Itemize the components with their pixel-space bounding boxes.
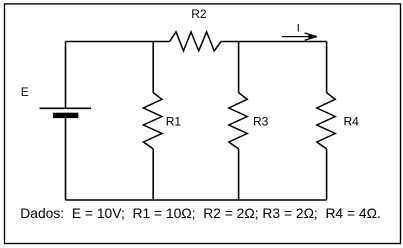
- current arrow I: [282, 33, 318, 40]
- wire: top bus from battery to R2 left terminal: [66, 41, 170, 43]
- resistor R2: [170, 32, 222, 51]
- wire: battery negative down to bottom-left corner: [65, 118, 67, 200]
- svg-text:R2: R2: [191, 7, 207, 21]
- wire: R2 right terminal to top-right corner: [221, 41, 327, 43]
- svg-text:R4: R4: [344, 114, 360, 128]
- wire: battery positive up left branch: [65, 42, 67, 108]
- svg-text:R3: R3: [253, 114, 269, 128]
- svg-text:I: I: [297, 22, 300, 34]
- wire: bottom bus: [66, 199, 327, 201]
- svg-text:E: E: [21, 85, 29, 99]
- resistor R3: [229, 93, 247, 149]
- wire: R1 top branch from top bus: [152, 42, 154, 93]
- battery E: thick negative plate: [53, 113, 78, 118]
- wire: R3 bottom branch to bottom bus: [238, 149, 240, 200]
- resistor R4: [317, 93, 335, 149]
- svg-text:R1: R1: [166, 114, 182, 128]
- wire: R4 bottom to bottom-right corner: [326, 149, 328, 200]
- battery E (voltage source): long positive plate: [40, 107, 92, 109]
- wire: R1 bottom branch to bottom bus: [152, 149, 154, 200]
- wire: R3 top branch from top bus: [238, 42, 240, 93]
- resistor R1: [143, 93, 162, 149]
- wire: right branch from top-right corner down to R4 top: [326, 42, 328, 93]
- svg-text:Dados: E = 10V; R1 = 10Ω; R: Dados: E = 10V; R1 = 10Ω; R2 = 2Ω; R3 = …: [20, 205, 381, 221]
